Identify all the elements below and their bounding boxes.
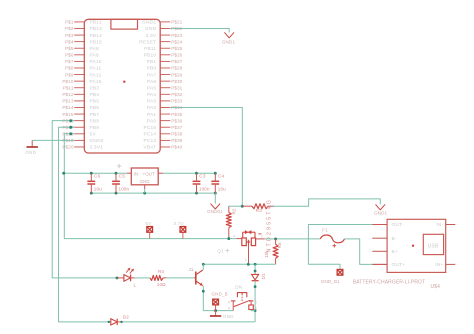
svg-text:PA0: PA0 [147,118,156,124]
svg-text:P$3: P$3 [65,33,74,38]
svg-text:GND: GND [223,314,234,319]
svg-text:P$23: P$23 [171,33,182,38]
svg-text:P$1: P$1 [65,20,74,25]
svg-text:GND1: GND1 [142,20,156,26]
svg-text:R4: R4 [158,269,164,274]
svg-text:PA6: PA6 [147,79,156,85]
svg-text:P$4: P$4 [65,39,74,44]
svg-text:P$8: P$8 [65,66,74,71]
svg-text:P$2: P$2 [65,26,74,31]
svg-text:PB6: PB6 [90,105,100,111]
svg-text:PA10: PA10 [90,59,102,65]
svg-text:P$30: P$30 [171,79,182,84]
svg-text:PC13: PC13 [143,138,156,144]
svg-text:P$5: P$5 [65,46,74,51]
svg-text:PC15: PC15 [143,125,156,131]
svg-text:F1: F1 [322,228,328,233]
svg-text:PA4: PA4 [147,92,156,98]
svg-text:PB1: PB1 [147,59,157,65]
svg-text:PB4: PB4 [90,92,100,98]
svg-text:C6: C6 [94,173,101,178]
svg-text:IN-: IN- [436,222,443,228]
svg-text:PA11: PA11 [90,66,102,72]
svg-text:+OUT: +OUT [143,172,155,177]
svg-text:PB11: PB11 [144,46,156,52]
svg-text:P$14: P$14 [62,105,73,110]
svg-text:PB10: PB10 [144,53,157,59]
svg-text:R2: R2 [232,208,237,214]
svg-text:Q1: Q1 [217,249,224,254]
svg-text:P$36: P$36 [171,118,182,123]
svg-text:P$25: P$25 [171,46,182,51]
svg-text:R3: R3 [256,208,262,213]
svg-text:P$33: P$33 [171,99,182,104]
svg-text:3.3V: 3.3V [146,33,157,39]
svg-text:P$40: P$40 [171,145,182,150]
svg-text:GND: GND [25,150,36,155]
svg-text:10u: 10u [218,187,226,192]
svg-text:B-: B- [392,236,397,242]
svg-text:D1: D1 [261,273,266,279]
svg-text:10k: 10k [264,250,269,258]
svg-text:PB8: PB8 [90,118,100,124]
svg-text:GND_B1: GND_B1 [321,279,340,284]
svg-text:P$21: P$21 [171,20,182,25]
svg-text:PB7: PB7 [90,112,100,118]
svg-text:PB14: PB14 [90,33,103,39]
svg-text:PA3: PA3 [147,99,156,105]
svg-text:DN: DN [235,284,242,289]
svg-text:P$12: P$12 [62,92,73,97]
svg-text:RESET: RESET [139,39,156,45]
svg-text:P$13: P$13 [62,99,73,104]
svg-text:A: A [228,301,231,305]
svg-text:D2: D2 [123,314,129,319]
svg-text:OUT-: OUT- [392,222,404,228]
svg-text:U$4: U$4 [431,284,441,290]
svg-text:PA5: PA5 [147,85,156,91]
svg-text:USB: USB [428,244,439,250]
svg-text:P$11: P$11 [63,85,74,90]
svg-text:3.7V: 3.7V [173,221,184,226]
svg-text:C4: C4 [218,173,225,178]
svg-text:P$29: P$29 [171,72,182,77]
svg-text:PA2: PA2 [147,105,156,111]
svg-text:PA9: PA9 [90,53,99,59]
svg-text:P$10: P$10 [62,79,73,84]
svg-text:P$39: P$39 [171,138,182,143]
svg-text:GND: GND [145,26,157,32]
svg-text:2: 2 [261,234,263,238]
svg-text:P$37: P$37 [171,125,182,130]
svg-text:P$9: P$9 [65,72,74,77]
svg-text:PA1: PA1 [147,112,156,118]
svg-text:PB13: PB13 [90,26,103,32]
svg-text:B+: B+ [392,249,398,255]
svg-text:PB0: PB0 [147,66,157,72]
svg-text:P$15: P$15 [62,112,73,117]
svg-text:PA7: PA7 [147,72,156,78]
svg-text:C5: C5 [119,173,126,178]
svg-text:GND01: GND01 [207,209,223,214]
svg-text:P$32: P$32 [171,92,182,97]
svg-text:5V: 5V [145,221,152,226]
svg-text:PB15: PB15 [90,39,103,45]
svg-text:GND_B: GND_B [212,291,228,296]
svg-text:PB12: PB12 [90,20,103,26]
svg-text:PB9: PB9 [90,125,100,131]
svg-text:3.3V1: 3.3V1 [90,145,104,151]
svg-text:B: B [254,301,257,305]
svg-text:VBAT: VBAT [143,145,156,151]
svg-text:PC14: PC14 [143,132,156,138]
svg-text:J1: J1 [189,267,194,272]
svg-text:GND: GND [140,179,150,184]
svg-text:PA15: PA15 [90,79,102,85]
svg-text:GND2: GND2 [90,138,104,144]
svg-text:100n: 100n [119,187,130,192]
svg-text:OUT+: OUT+ [392,262,406,268]
svg-text:5V: 5V [90,132,97,138]
svg-text:P$26: P$26 [171,53,182,58]
svg-text:P$38: P$38 [171,132,182,137]
svg-text:4: 4 [233,234,235,238]
svg-text:100n: 100n [199,187,210,192]
svg-text:P$28: P$28 [171,66,182,71]
svg-text:A: A [228,306,231,310]
svg-text:P$6: P$6 [65,53,74,58]
svg-text:10Ω: 10Ω [157,282,166,287]
svg-text:PA8: PA8 [90,46,99,52]
svg-text:10u: 10u [94,187,102,192]
svg-text:PB3: PB3 [90,85,100,91]
svg-text:IN: IN [134,172,139,177]
svg-text:NTD2955T4G: NTD2955T4G [267,198,273,253]
svg-text:P$35: P$35 [171,112,182,117]
svg-text:L: L [134,283,137,288]
svg-text:P$7: P$7 [65,59,74,64]
svg-text:PB5: PB5 [90,99,100,105]
svg-text:1: 1 [245,258,247,262]
svg-text:BATTERY-CHARGER-LI-PROT: BATTERY-CHARGER-LI-PROT [353,279,426,285]
svg-text:GND1: GND1 [374,210,388,215]
svg-text:PA12: PA12 [90,72,102,78]
svg-text:R5: R5 [277,242,282,248]
svg-text:P$27: P$27 [171,59,182,64]
svg-text:P$31: P$31 [171,85,182,90]
svg-text:C3: C3 [199,173,206,178]
svg-text:GND1: GND1 [222,40,236,45]
svg-text:P$24: P$24 [171,39,182,44]
svg-text:IN+: IN+ [435,262,443,268]
svg-text:B: B [254,306,257,310]
